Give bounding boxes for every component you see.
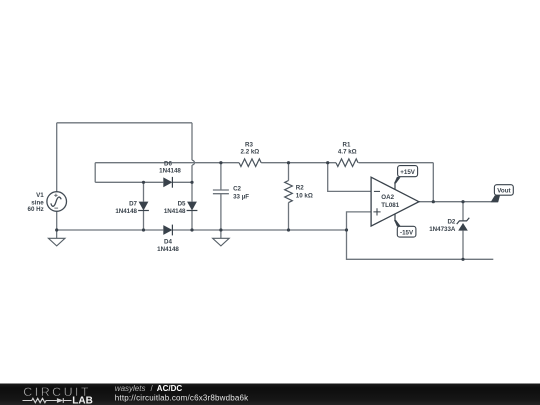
wire D6 row left (95, 181, 163, 183)
wire C2 top lead (220, 163, 222, 190)
wire D7 top lead (143, 182, 145, 201)
wire right vertical of top loop (lower part) (191, 165, 193, 182)
op-amp V- pin (395, 214, 399, 226)
svg-text:10 kΩ: 10 kΩ (296, 193, 313, 200)
svg-text:1N4148: 1N4148 (157, 246, 179, 253)
wire D5 top lead (191, 182, 193, 201)
footer bar (0, 384, 540, 405)
wire R2 top lead (288, 163, 290, 181)
svg-text:60 Hz: 60 Hz (28, 206, 44, 213)
svg-text:TL081: TL081 (381, 202, 399, 209)
junction D7 cathode rail (142, 228, 145, 231)
svg-text:D5: D5 (178, 201, 186, 208)
wire D2 bottom lead (462, 231, 464, 260)
junction inverting input tap (326, 161, 329, 164)
diode D6 (163, 177, 172, 188)
wire feedback vertical (432, 163, 434, 202)
wire D5 bottom lead (191, 210, 193, 230)
net flag -15V (397, 226, 416, 237)
svg-text:1N4733A: 1N4733A (429, 226, 456, 233)
wire inverting input branch (328, 163, 371, 192)
wire D2 top lead (462, 202, 464, 221)
resistor R2 (285, 181, 293, 203)
svg-text:-15V: -15V (400, 229, 414, 236)
svg-text:1N4148: 1N4148 (164, 208, 186, 215)
svg-text:C2: C2 (233, 185, 241, 192)
junction D2 cathode on output (461, 200, 464, 203)
svg-text:D2: D2 (447, 219, 455, 226)
wire V1 top lead up (56, 123, 58, 192)
op-amp OA2 (371, 177, 419, 226)
resistor R3 (239, 159, 261, 167)
wire right vertical of top loop (upper part) (191, 123, 193, 160)
net flag Vout (491, 185, 514, 203)
svg-text:Vout: Vout (497, 188, 510, 195)
svg-text:D7: D7 (129, 201, 137, 208)
svg-text:2.2 kΩ: 2.2 kΩ (241, 149, 260, 156)
wire ground stub down right (347, 230, 494, 259)
wire bottom rail left of D4 (57, 229, 164, 231)
wire R2 bottom lead (288, 203, 290, 230)
wire short vertical at x=95 (94, 163, 96, 183)
svg-text:V1: V1 (36, 192, 44, 199)
wire mid horizontal right of R1 (feedback top) (359, 162, 434, 164)
resistor R1 (336, 159, 358, 167)
diode D7 (138, 202, 149, 211)
source V1 (47, 192, 67, 212)
svg-text:1N4148: 1N4148 (115, 208, 137, 215)
svg-text:33 µF: 33 µF (233, 194, 249, 201)
wire D7 bottom lead (143, 210, 145, 230)
junction feedback tap on output (432, 200, 435, 203)
junction D6 cathode / D5 anode (190, 181, 193, 184)
junction noninverting input rail (345, 228, 348, 231)
junction D5 cathode rail (190, 228, 193, 231)
junction V1 ground (55, 228, 58, 231)
zener D2 (457, 218, 470, 231)
wire mid horizontal net segment left (95, 162, 239, 164)
junction D7 anode row (142, 181, 145, 184)
wire top loop horizontal (57, 122, 192, 124)
wire op-amp output (419, 201, 498, 203)
wire V1 bottom lead (56, 212, 58, 231)
wire hop over mid wire (192, 160, 194, 165)
svg-text:R2: R2 (296, 185, 304, 192)
svg-text:AC/DC: AC/DC (157, 384, 183, 393)
junction R2 bottom rail (287, 228, 290, 231)
ground under C2 (213, 230, 230, 246)
junction C2 top (219, 161, 222, 164)
ground under V1 (48, 230, 65, 246)
svg-text:http://circuitlab.com/c6x3r8bw: http://circuitlab.com/c6x3r8bwdba6k (115, 394, 249, 403)
net flag +15V (398, 166, 418, 177)
svg-text:OA2: OA2 (381, 194, 394, 201)
svg-text:D6: D6 (164, 160, 172, 167)
diode D4 (163, 225, 172, 236)
op-amp V+ pin (395, 177, 399, 189)
svg-text:wasylets: wasylets (115, 384, 146, 393)
junction R2 top (287, 161, 290, 164)
wire mid horizontal between R3 and R1 (261, 162, 336, 164)
junction C2 bottom ground (219, 228, 222, 231)
svg-text:1N4148: 1N4148 (159, 168, 181, 175)
svg-text:R1: R1 (343, 142, 351, 149)
svg-text:R3: R3 (245, 142, 253, 149)
svg-text:+15V: +15V (400, 169, 415, 176)
junction D2 anode on ground stub (461, 258, 464, 261)
logo squiggle (23, 398, 72, 403)
wire C2 bottom lead (220, 194, 222, 230)
diode D5 (187, 202, 198, 211)
svg-text:4.7 kΩ: 4.7 kΩ (338, 149, 357, 156)
capacitor C2 (213, 190, 229, 194)
wire D6 row right (172, 181, 192, 183)
wire bottom rail right of D4 (172, 229, 346, 231)
svg-text:LAB: LAB (72, 396, 93, 405)
svg-text:D4: D4 (164, 239, 172, 246)
wire noninverting input branch (347, 212, 372, 230)
